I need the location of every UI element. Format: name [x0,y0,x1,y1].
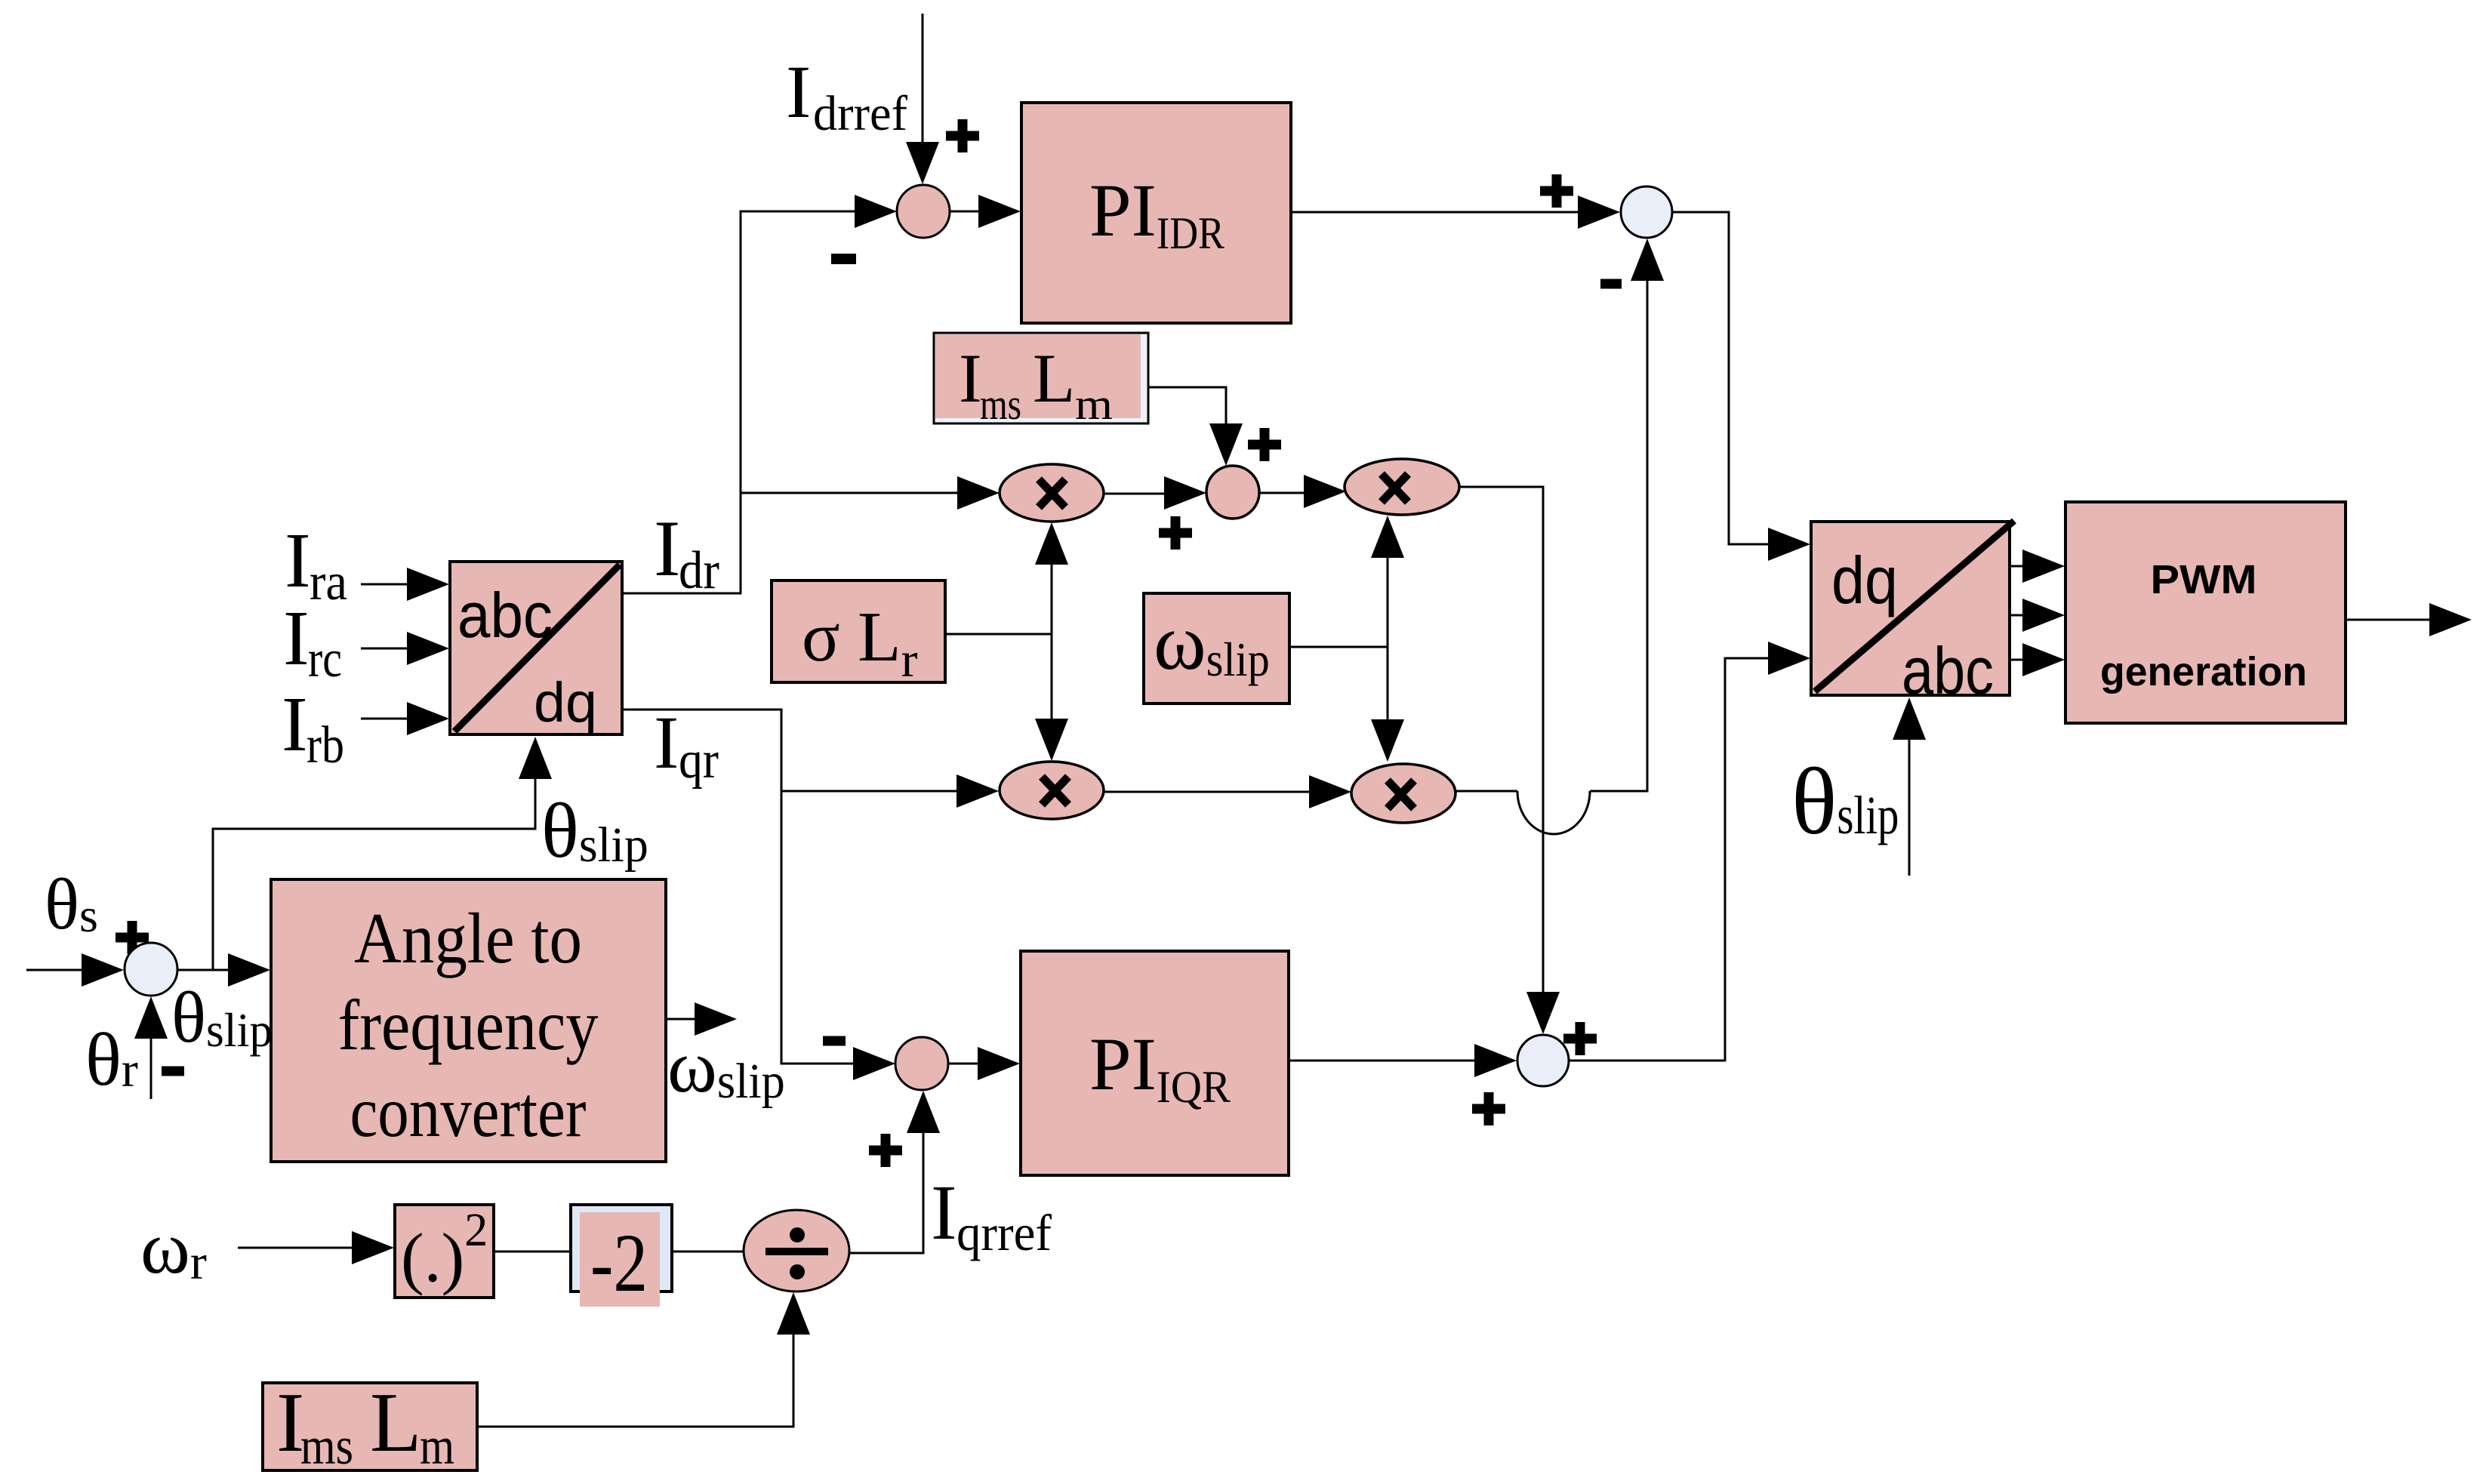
wire Ira input [361,568,449,601]
svg-text:converter: converter [350,1072,587,1152]
summer S3 (white) [1621,186,1672,238]
wire S6 to Angle box [177,953,270,987]
wire Irc input [361,632,449,665]
block Ims Lm (top) with white sliver [934,333,1148,429]
wire E4 output with hop then up into S3 [1456,239,1664,834]
block squarer (.)^2 [395,1205,494,1298]
wire ImsLm bottom to divider [477,1292,810,1427]
block -2 (blue frame, offset pink) [571,1205,672,1309]
summer S1 [897,185,950,238]
svg-text:-2: -2 [590,1217,648,1309]
plus sign S2 left input [1159,516,1192,550]
wire S3 output to dq/abc input1 [1672,212,1810,561]
wire omega r input [238,1231,394,1264]
svg-text:abc: abc [457,580,553,651]
wire Irb input [361,702,449,735]
multiplier E4 [1351,764,1456,823]
wire S2 to E2 [1259,475,1346,508]
plus sign S5 left input [1472,1092,1505,1125]
wire Angle box output arrow [666,1002,737,1036]
plus sign S3 left input [1540,174,1573,208]
wire theta slip into dq/abc bottom [1893,697,1926,876]
wire dq/abc to PWM arrow3 [2010,643,2065,676]
summer S5 (white) [1517,1035,1569,1086]
plus sign S4 bottom input [869,1134,902,1167]
minus sign S6 bottom [162,1067,184,1076]
plus sign S5 top input [1563,1022,1597,1055]
summer S2 [1206,466,1259,519]
multiplier E3 [1000,762,1104,819]
wire E3 to E4 [1104,775,1351,808]
wire Idr branch to multiplier E1 [741,476,1000,510]
wire Idr feedback into S1 [622,195,897,593]
wire Idrref vertical into summer S1 [906,14,939,184]
wire PWM output [2346,603,2472,636]
plus sign S1 top input [946,119,979,152]
svg-text:PWM: PWM [2151,557,2257,602]
svg-text:abc: abc [1902,633,1994,708]
divider E5 [744,1210,849,1292]
wire E1 to S2 [1104,476,1206,510]
block abc/dq (left) [450,562,622,734]
summer S6 (white) [125,943,177,996]
svg-text:dq: dq [534,671,597,734]
wire PI_IQR output to S5 [1289,1044,1517,1077]
wire -2 to divider [672,1251,744,1253]
plus sign S2 top input [1248,428,1281,461]
wire dq/abc to PWM arrow2 [2010,599,2065,632]
svg-text:dq: dq [1831,543,1898,617]
block PWM generation [2065,502,2346,723]
svg-text:Angle to: Angle to [354,898,582,978]
wire PI_IDR to S3 [1291,196,1620,229]
multiplier E1 [1000,464,1104,522]
summer S4 [895,1037,948,1090]
wire S1 to PI_IDR [950,195,1021,228]
wire vertical E2-E4 with omegaslip junction [1371,516,1404,762]
wire sigmaLr to vertical [945,633,1052,636]
plus sign S6 [116,921,149,954]
multiplier E2 [1345,459,1459,515]
block sigma Lr [772,580,945,688]
svg-text:σ Lr: σ Lr [802,598,918,688]
wire vertical E1-E3 with sigmaLr junction [1035,522,1068,761]
wire E2 output down into S5 [1459,487,1560,1034]
block omega slip [1144,593,1289,704]
block theta slip input to abc/dq : wire from theta summer S6 [213,737,552,970]
wire dq/abc to PWM arrow1 [2010,550,2065,583]
block dq/abc (right) [1811,521,2014,708]
wire ImsLm to S2 [1148,387,1243,466]
wire theta r input [134,996,168,1099]
block Angle to frequency converter [271,879,666,1162]
svg-text:frequency: frequency [338,985,599,1065]
block PI_IDR [1021,103,1291,323]
minus sign S4 left input [823,1036,846,1046]
block Ims Lm (bottom) [263,1376,477,1476]
svg-text:generation: generation [2100,649,2307,694]
wire up-arrow into S4 bottom from Iqrref [849,1091,940,1253]
wire Iqr from abc/dq down to S4 with branch to E3 [622,710,999,1080]
wire S5 output to dq/abc input2 [1569,642,1810,1061]
minus sign S3 bottom input [1600,279,1622,289]
wire omegaslip box to vertical [1289,646,1388,648]
minus sign S1 left input [831,254,856,264]
block PI_IQR [1021,951,1289,1175]
wire squarer to -2 [494,1251,571,1253]
wire S4 to PI_IQR [948,1047,1020,1080]
wire theta s input [26,953,124,987]
